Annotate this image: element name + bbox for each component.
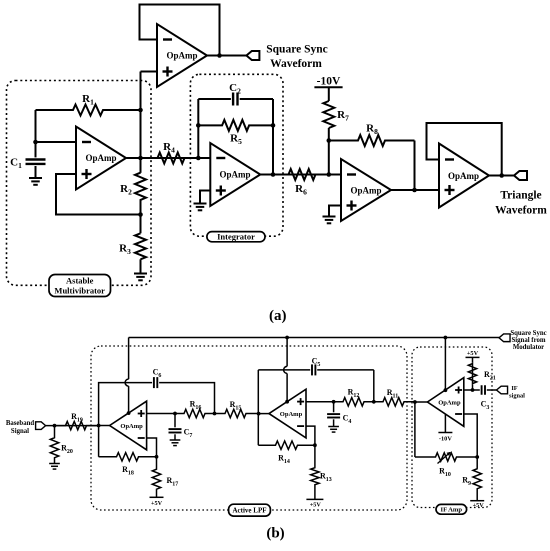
svg-text:Multivibrator: Multivibrator bbox=[54, 286, 105, 296]
svg-text:(a): (a) bbox=[269, 308, 287, 324]
svg-text:Active LPF: Active LPF bbox=[232, 507, 266, 515]
svg-text:OpAmp: OpAmp bbox=[438, 400, 461, 407]
svg-text:Integrator: Integrator bbox=[217, 232, 255, 242]
svg-text:(b): (b) bbox=[266, 526, 284, 542]
svg-text:Waveform: Waveform bbox=[495, 205, 547, 217]
svg-text:+5V: +5V bbox=[467, 350, 479, 357]
svg-text:OpAmp: OpAmp bbox=[219, 170, 250, 180]
svg-text:-10V: -10V bbox=[317, 76, 341, 88]
svg-text:+5V: +5V bbox=[473, 502, 485, 509]
svg-text:Waveform: Waveform bbox=[270, 58, 322, 70]
svg-text:Triangle: Triangle bbox=[500, 190, 541, 202]
svg-text:IF: IF bbox=[511, 385, 517, 392]
svg-text:-10V: -10V bbox=[439, 436, 452, 443]
svg-text:Signal: Signal bbox=[11, 428, 29, 435]
svg-text:OpAmp: OpAmp bbox=[85, 153, 116, 163]
svg-text:OpAmp: OpAmp bbox=[120, 423, 143, 430]
svg-text:+5V: +5V bbox=[151, 500, 163, 507]
svg-text:Modulator: Modulator bbox=[513, 344, 544, 351]
svg-text:Square Sync: Square Sync bbox=[266, 44, 327, 56]
svg-text:OpAmp: OpAmp bbox=[280, 411, 303, 418]
svg-text:+5V: +5V bbox=[310, 502, 322, 509]
svg-text:OpAmp: OpAmp bbox=[350, 186, 381, 196]
svg-text:Baseband: Baseband bbox=[6, 420, 35, 427]
svg-text:signal: signal bbox=[509, 392, 525, 399]
svg-text:OpAmp: OpAmp bbox=[448, 171, 479, 181]
svg-text:Signal from: Signal from bbox=[511, 337, 545, 344]
svg-text:Square Sync: Square Sync bbox=[510, 330, 546, 337]
svg-text:IF Amp: IF Amp bbox=[441, 507, 463, 514]
svg-text:Astable: Astable bbox=[66, 276, 94, 286]
svg-text:OpAmp: OpAmp bbox=[166, 51, 197, 61]
